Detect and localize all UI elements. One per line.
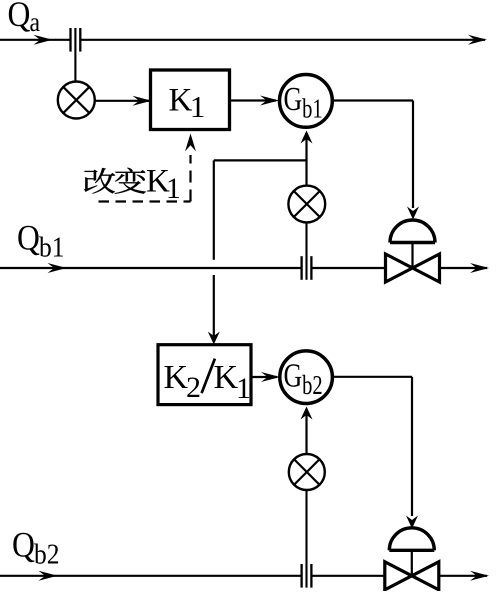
svg-text:K: K bbox=[214, 359, 239, 396]
svg-text:K1: K1 bbox=[169, 83, 206, 125]
svg-text:2: 2 bbox=[186, 371, 201, 404]
svg-text:Qa: Qa bbox=[8, 0, 41, 37]
svg-text:K: K bbox=[164, 359, 189, 396]
svg-text:1: 1 bbox=[236, 372, 251, 405]
